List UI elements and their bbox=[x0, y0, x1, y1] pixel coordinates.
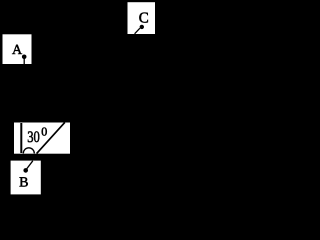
svg-text:A: A bbox=[12, 43, 23, 58]
ball in box B bbox=[23, 168, 28, 173]
box A (white card) bbox=[3, 34, 32, 64]
arch (semicircle bump at base) bbox=[23, 148, 34, 154]
box B (white card) bbox=[11, 161, 41, 195]
box C (white card) bbox=[128, 2, 156, 34]
svg-text:C: C bbox=[139, 11, 149, 27]
svg-text:30: 30 bbox=[27, 129, 40, 146]
incline card (white) bbox=[14, 123, 70, 154]
rod in box C bbox=[135, 28, 140, 34]
incline surface (diagonal line) bbox=[37, 122, 65, 153]
wall (vertical line) bbox=[20, 123, 22, 153]
svg-text:0: 0 bbox=[41, 125, 47, 139]
string in box B bbox=[26, 161, 33, 170]
svg-text:B: B bbox=[19, 176, 28, 191]
rod in box A bbox=[23, 57, 25, 64]
ball in box C bbox=[140, 25, 144, 29]
ball in box A bbox=[22, 55, 27, 60]
